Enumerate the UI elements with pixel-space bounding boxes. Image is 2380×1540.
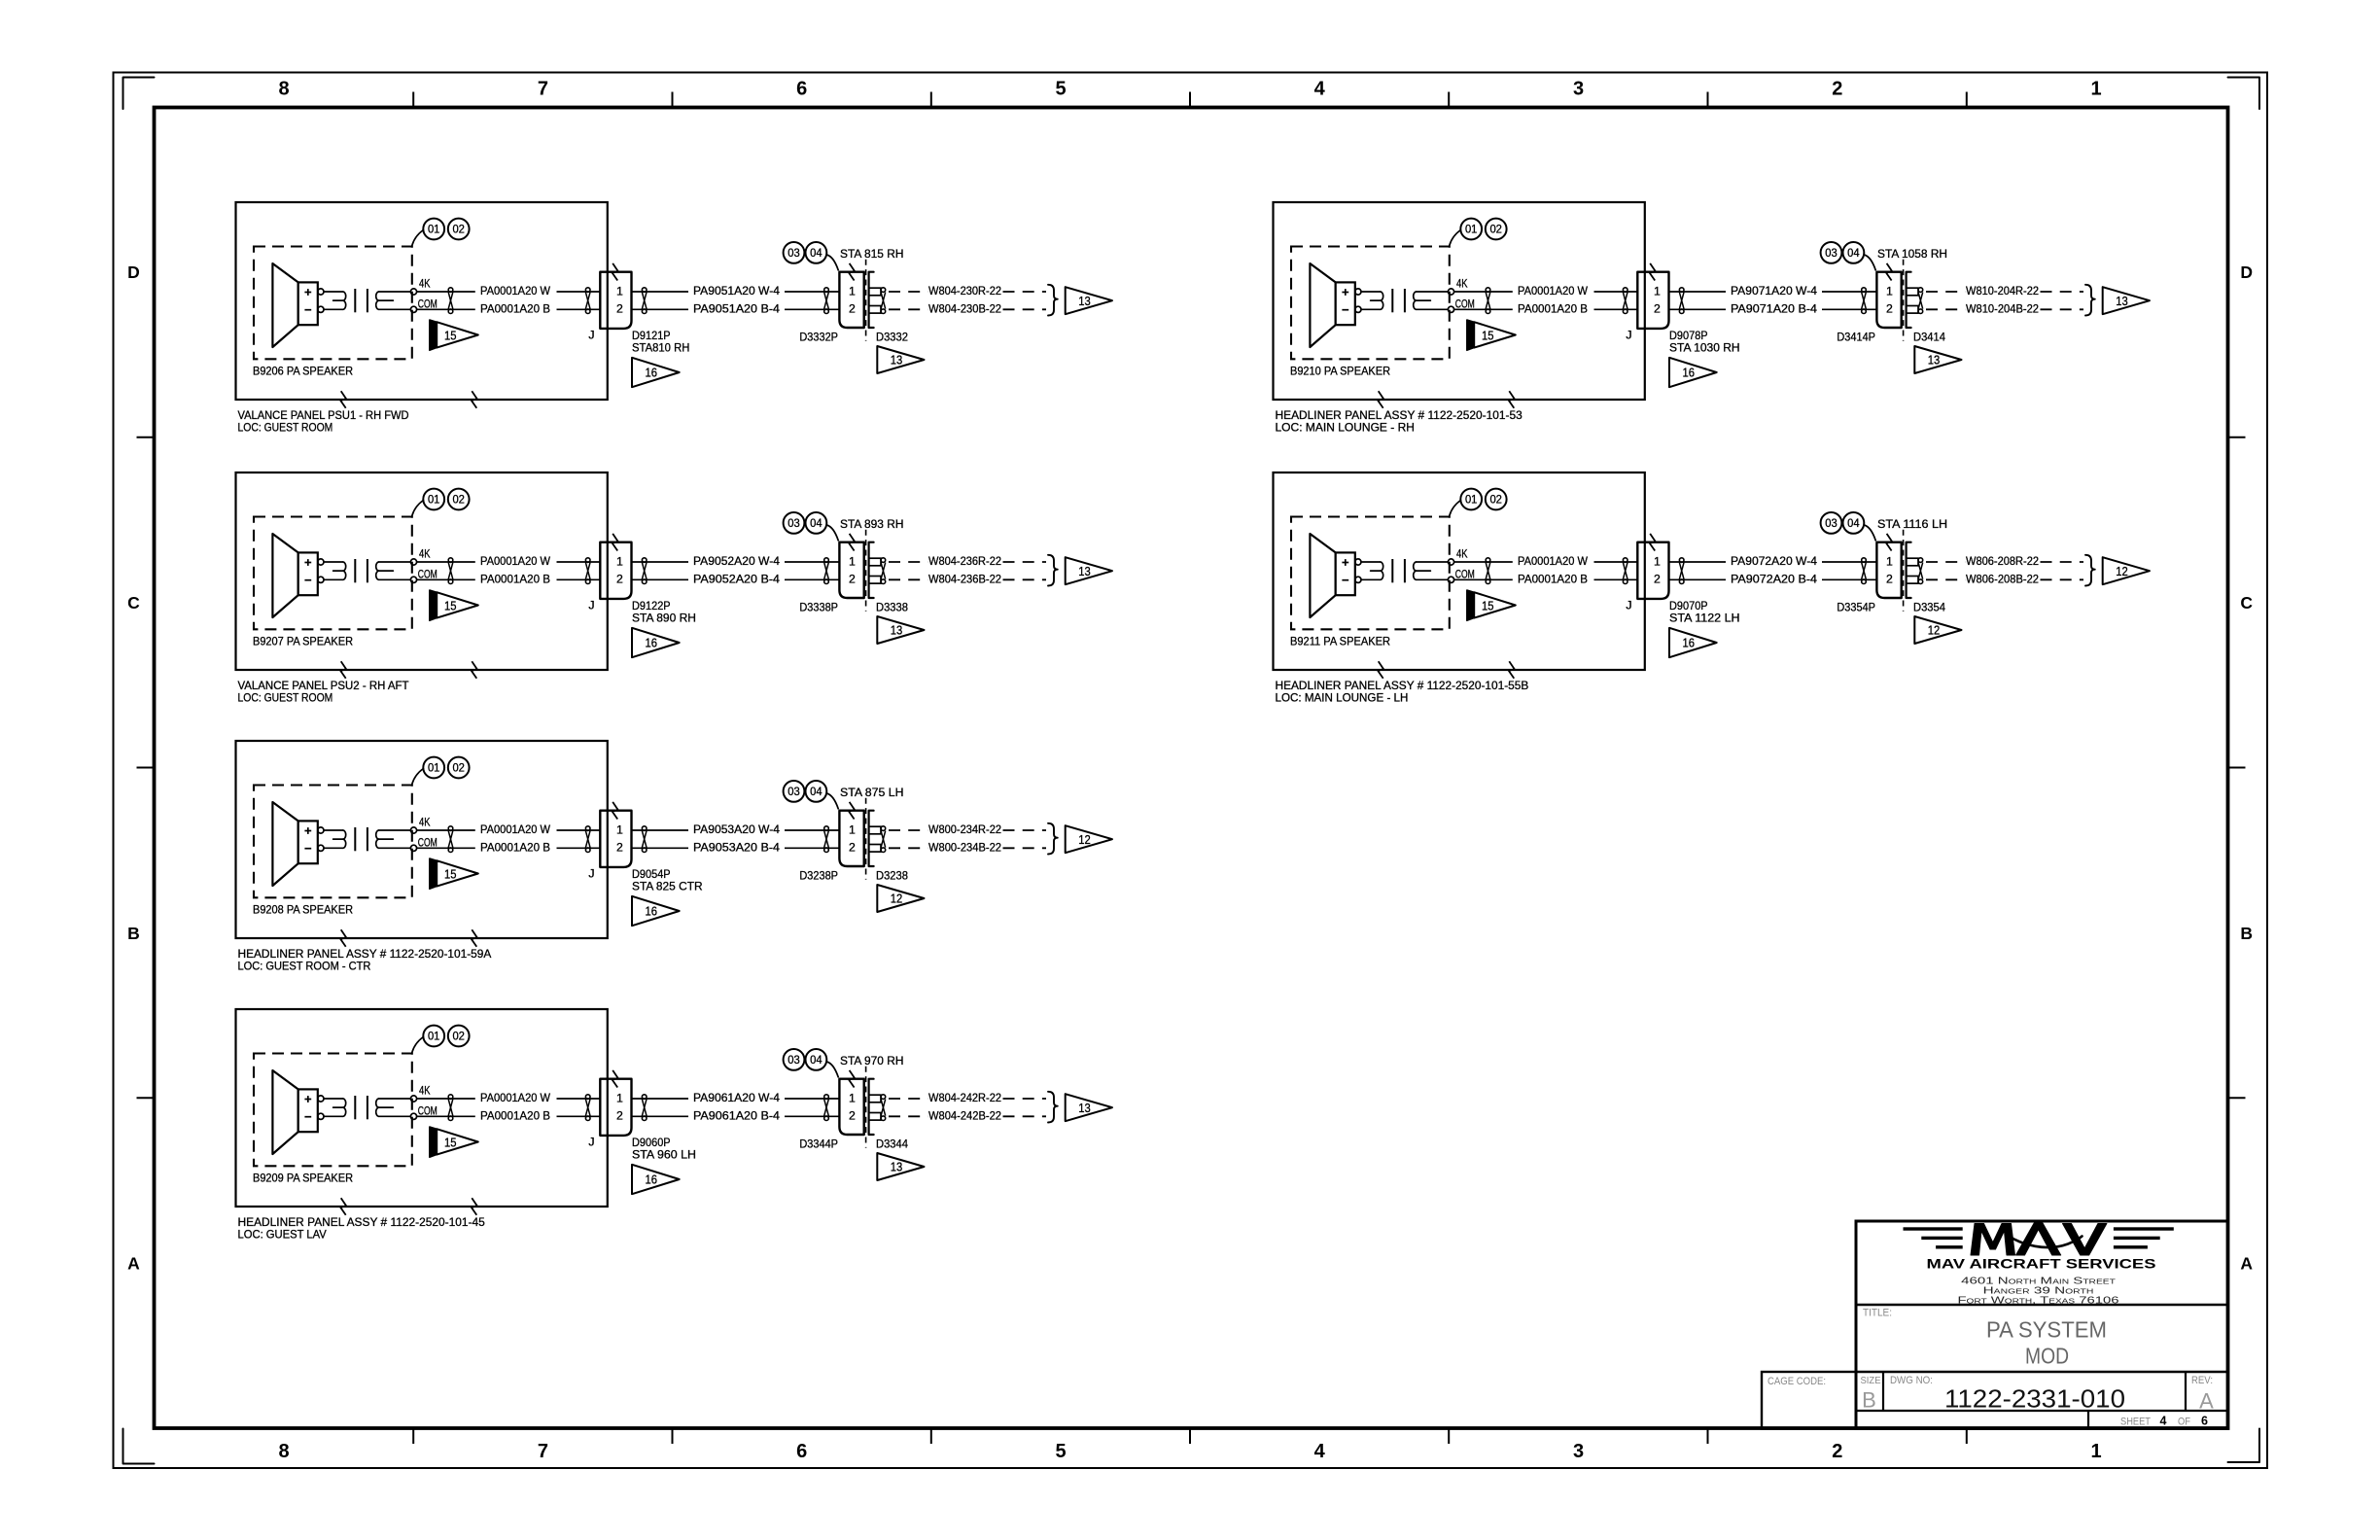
zone row ticks right — [2228, 437, 2246, 1099]
wire PA9053A20 W-4 (B9208) — [632, 822, 840, 836]
twist symbol 4 (B9206) — [824, 288, 829, 314]
terminal COM (B9209) — [410, 1104, 437, 1120]
panel box break mark 2 (B9206) — [472, 391, 477, 408]
svg-text:B9210 PA SPEAKER: B9210 PA SPEAKER — [1290, 365, 1390, 378]
caption HEADLINER PANEL ASSY # 1122-2520-101-53 — [1276, 408, 1522, 435]
connector D3238P pin 1 (B9208) — [849, 822, 856, 836]
svg-text:C: C — [2240, 593, 2253, 612]
svg-text:02: 02 — [452, 493, 465, 507]
flag 15 (B9207) — [430, 590, 478, 620]
svg-text:OF: OF — [2178, 1417, 2190, 1428]
svg-text:LOC: GUEST LAV: LOC: GUEST LAV — [238, 1228, 328, 1242]
flag 13 off-sheet (B9209) — [1066, 1094, 1112, 1121]
speaker B9207 + terminal mark — [304, 559, 311, 566]
svg-text:LOC: MAIN LOUNGE - RH: LOC: MAIN LOUNGE - RH — [1276, 421, 1415, 435]
connector J label (B9211) — [1626, 599, 1631, 612]
corner trim mark top-left — [123, 78, 155, 110]
rev A — [2199, 1389, 2214, 1414]
flag 12 off-sheet (B9208) — [1066, 825, 1112, 853]
svg-text:02: 02 — [452, 223, 465, 236]
speaker B9211 + terminal mark — [1342, 559, 1348, 566]
svg-text:2: 2 — [1832, 79, 1842, 100]
caption VALANCE PANEL PSU1 - RH FWD — [238, 408, 409, 435]
wire PA9061A20 B-4 (B9209) — [632, 1108, 840, 1122]
speaker B9207 symbol — [272, 534, 317, 617]
svg-text:PA0001A20 W: PA0001A20 W — [480, 1091, 550, 1104]
wire PA9051A20 B-4 (B9206) — [632, 301, 840, 315]
connector J label (B9206) — [588, 329, 594, 342]
svg-text:SHEET: SHEET — [2120, 1417, 2151, 1428]
corner trim mark top-right — [2228, 78, 2260, 110]
svg-text:STA 815 RH: STA 815 RH — [840, 247, 904, 261]
title PA SYSTEM — [1986, 1317, 2107, 1343]
flag 13 off-sheet (B9206) — [1066, 287, 1112, 314]
svg-text:D3238: D3238 — [876, 868, 908, 882]
svg-text:15: 15 — [1482, 598, 1494, 612]
twist symbol 1 (B9208) — [448, 826, 453, 853]
wire PA0001A20 W (B9207) — [417, 554, 601, 568]
svg-text:A: A — [2199, 1389, 2214, 1414]
svg-text:1: 1 — [616, 822, 623, 836]
wire PA9051A20 W-4 (B9206) — [632, 284, 840, 297]
svg-text:STA 1058 RH: STA 1058 RH — [1877, 247, 1947, 261]
connector J (B9210) — [1637, 272, 1668, 329]
flag 13 off-sheet (B9207) — [1066, 557, 1112, 584]
speaker B9208 label — [253, 903, 353, 917]
flag 15 (B9211) — [1467, 590, 1516, 620]
wire PA0001A20 W (B9206) — [417, 284, 601, 297]
wire service-loop curl left (B9207) — [324, 562, 346, 579]
svg-text:15: 15 — [444, 1135, 457, 1149]
svg-text:1: 1 — [849, 1091, 856, 1104]
flag 16 (B9209) — [632, 1165, 680, 1194]
svg-text:01: 01 — [428, 1030, 440, 1043]
connector J pin 1 (B9210) — [1654, 284, 1661, 297]
connector D3338P break mark (B9207) — [849, 534, 855, 551]
flag 16 (B9208) — [632, 896, 680, 926]
wire PA9053A20 B-4 (B9208) — [632, 840, 840, 854]
title MOD — [2025, 1344, 2069, 1369]
connector D3238P pin 2 (B9208) — [849, 841, 856, 855]
speaker B9211 terminal circles — [1355, 559, 1361, 583]
twist symbol 4 (B9209) — [824, 1095, 829, 1121]
wire PA0001A20 W (B9208) — [417, 822, 601, 836]
wire service-loop curl right (B9208) — [376, 830, 411, 848]
wire service-loop curl right (B9210) — [1414, 292, 1449, 309]
svg-text:STA 1122 LH: STA 1122 LH — [1669, 612, 1740, 625]
svg-text:4K: 4K — [419, 547, 431, 561]
station label STA 875 LH (B9208) — [840, 786, 904, 799]
connector D9078P labels (B9210) — [1669, 329, 1740, 355]
svg-text:PA9071A20 B-4: PA9071A20 B-4 — [1731, 301, 1817, 315]
speaker B9210 terminal circles — [1355, 289, 1361, 313]
address line 2 — [1983, 1285, 2094, 1296]
flag 15 (B9209) — [430, 1127, 478, 1157]
svg-text:12: 12 — [2116, 564, 2128, 578]
svg-text:13: 13 — [1078, 1101, 1091, 1115]
wire service-loop curl left (B9211) — [1361, 562, 1383, 579]
connector label D3344 (B9209) — [876, 1137, 908, 1150]
svg-text:PA9051A20 B-4: PA9051A20 B-4 — [693, 301, 780, 315]
flag 13 off-sheet (B9210) — [2103, 287, 2150, 314]
svg-text:4K: 4K — [419, 277, 431, 291]
svg-text:J: J — [588, 867, 594, 881]
twist symbol 3 (B9210) — [1679, 288, 1684, 314]
svg-text:1122-2331-010: 1122-2331-010 — [1944, 1384, 2125, 1414]
svg-text:2: 2 — [1654, 573, 1661, 586]
svg-text:D3344: D3344 — [876, 1137, 908, 1150]
speaker B9207 terminal circles — [318, 559, 324, 583]
svg-text:4: 4 — [1314, 1441, 1326, 1462]
terminal COM (B9208) — [410, 836, 437, 852]
svg-text:02: 02 — [1489, 223, 1502, 236]
connector D3332P pin 2 (B9206) — [849, 302, 856, 316]
caption VALANCE PANEL PSU2 - RH AFT — [238, 679, 409, 705]
svg-text:TITLE:: TITLE: — [1863, 1308, 1892, 1319]
connector D3344P pin 2 (B9209) — [849, 1109, 856, 1123]
flag 15 (B9210) — [1467, 320, 1516, 350]
connector J break mark (B9208) — [612, 802, 618, 820]
feed-through bars (B9206) — [355, 289, 367, 312]
svg-text:16: 16 — [1683, 366, 1696, 380]
svg-text:W804-236R-22: W804-236R-22 — [928, 554, 1001, 568]
connector J pin 2 (B9210) — [1654, 302, 1661, 316]
svg-text:PA9061A20 B-4: PA9061A20 B-4 — [693, 1108, 780, 1122]
svg-text:02: 02 — [452, 761, 465, 775]
connector J break mark (B9209) — [612, 1070, 618, 1088]
svg-text:6: 6 — [796, 79, 807, 100]
feed-through bars (B9211) — [1392, 559, 1405, 582]
svg-text:2: 2 — [849, 302, 856, 316]
station reference dashed line (B9209) — [865, 1067, 867, 1148]
svg-text:6: 6 — [796, 1441, 807, 1462]
svg-text:4K: 4K — [1456, 547, 1468, 561]
svg-text:W806-208B-22: W806-208B-22 — [1966, 572, 2039, 585]
svg-text:B9207 PA SPEAKER: B9207 PA SPEAKER — [253, 635, 353, 648]
wire service-loop curl right (B9207) — [376, 562, 411, 579]
station reference dashed line (B9207) — [865, 530, 867, 612]
wire PA0001A20 B (B9206) — [417, 301, 601, 315]
svg-text:4K: 4K — [419, 816, 431, 829]
station label STA 970 RH (B9209) — [840, 1054, 904, 1067]
svg-text:15: 15 — [1482, 328, 1494, 342]
svg-text:SIZE: SIZE — [1861, 1375, 1881, 1386]
panel box VALANCE PANEL PSU1 - RH FWD — [236, 202, 608, 400]
wire service-loop curl right (B9211) — [1414, 562, 1449, 579]
speaker B9211 label — [1290, 635, 1390, 648]
flag 13 below connector (B9210) — [1914, 346, 1961, 373]
size B — [1862, 1388, 1876, 1413]
svg-text:1: 1 — [849, 822, 856, 836]
svg-text:04: 04 — [810, 246, 822, 260]
svg-text:13: 13 — [1078, 294, 1091, 308]
REV label — [2191, 1375, 2213, 1386]
svg-text:W804-242B-22: W804-242B-22 — [928, 1108, 1001, 1122]
wire PA9061A20 W-4 (B9209) — [632, 1091, 840, 1104]
dashed wire W800-234R-22 (B9208) — [889, 822, 1046, 836]
panel box break mark 1 (B9206) — [340, 391, 346, 408]
connector label D3332P (B9206) — [799, 330, 838, 343]
svg-text:4K: 4K — [1456, 277, 1468, 291]
dashed wire W804-242R-22 (B9209) — [889, 1091, 1046, 1104]
panel box HEADLINER PANEL ASSY # 1122-2520-101-59A — [236, 741, 608, 938]
connector J break mark (B9206) — [612, 263, 618, 281]
connector D3354P pin 1 (B9211) — [1886, 554, 1893, 568]
svg-text:1: 1 — [1654, 284, 1661, 297]
dashed LRU boundary B9210 — [1291, 247, 1450, 360]
svg-text:PA9053A20 B-4: PA9053A20 B-4 — [693, 840, 780, 854]
flag 13 below connector (B9207) — [877, 616, 924, 644]
wire PA9052A20 W-4 (B9207) — [632, 554, 840, 568]
svg-text:PA9052A20 B-4: PA9052A20 B-4 — [693, 572, 780, 585]
brace (B9209) — [1048, 1092, 1058, 1123]
svg-text:2: 2 — [849, 573, 856, 586]
dashed wire W804-230B-22 (B9206) — [889, 301, 1046, 315]
speaker B9206 label — [253, 365, 353, 378]
station reference dashed line (B9208) — [865, 798, 867, 880]
speaker B9206 symbol — [272, 263, 317, 347]
svg-text:15: 15 — [444, 866, 457, 881]
connector D3354P body (B9211) — [1876, 542, 1901, 598]
ref circles 01 02 (B9210) — [1450, 219, 1507, 246]
wire PA0001A20 B (B9208) — [417, 840, 601, 854]
zone column ticks bottom — [413, 1428, 1967, 1444]
svg-text:B9208 PA SPEAKER: B9208 PA SPEAKER — [253, 903, 353, 917]
svg-text:12: 12 — [891, 892, 903, 906]
connector D3344P pin 1 (B9209) — [849, 1091, 856, 1104]
SIZE label — [1861, 1375, 1881, 1386]
svg-text:DWG NO:: DWG NO: — [1890, 1375, 1933, 1386]
connector J pin 1 (B9211) — [1654, 554, 1661, 568]
svg-text:4: 4 — [2160, 1415, 2167, 1428]
caption HEADLINER PANEL ASSY # 1122-2520-101-55B — [1276, 679, 1529, 705]
svg-text:D3332: D3332 — [876, 330, 908, 343]
twist symbol 5 (B9210) — [1918, 288, 1923, 314]
connector D3332P break mark (B9206) — [849, 263, 855, 281]
svg-text:15: 15 — [444, 598, 457, 612]
svg-text:4K: 4K — [419, 1084, 431, 1098]
svg-text:01: 01 — [428, 223, 440, 236]
wire PA9071A20 W-4 (B9210) — [1669, 284, 1877, 297]
svg-text:MAV AIRCRAFT SERVICES: MAV AIRCRAFT SERVICES — [1927, 1257, 2156, 1272]
svg-text:1: 1 — [1886, 284, 1893, 297]
DWG NO label — [1890, 1375, 1933, 1386]
svg-text:STA 1030 RH: STA 1030 RH — [1669, 341, 1740, 355]
speaker B9211 symbol — [1310, 534, 1354, 617]
svg-text:B: B — [127, 924, 140, 943]
svg-text:W804-230R-22: W804-230R-22 — [928, 284, 1001, 297]
address line 3 — [1958, 1296, 2119, 1307]
speaker B9209 - terminal mark — [304, 1116, 311, 1118]
twist symbol 3 (B9209) — [642, 1095, 647, 1121]
twist symbol 1 (B9206) — [448, 288, 453, 314]
ref circles 01 02 (B9206) — [412, 219, 470, 246]
svg-text:5: 5 — [1055, 1441, 1066, 1462]
wire PA0001A20 B (B9211) — [1454, 572, 1638, 585]
svg-text:W800-234B-22: W800-234B-22 — [928, 840, 1001, 854]
svg-text:16: 16 — [646, 904, 658, 919]
svg-text:STA 825 CTR: STA 825 CTR — [632, 880, 703, 893]
svg-text:Fort Worth, Texas 76106: Fort Worth, Texas 76106 — [1958, 1296, 2119, 1307]
dashed LRU boundary B9208 — [254, 786, 412, 898]
svg-text:04: 04 — [810, 785, 822, 798]
svg-text:PA0001A20 W: PA0001A20 W — [1518, 554, 1588, 568]
svg-text:W810-204B-22: W810-204B-22 — [1966, 301, 2039, 315]
connector J (B9209) — [600, 1079, 631, 1136]
svg-text:D3338: D3338 — [876, 600, 908, 613]
dashed wire W804-236B-22 (B9207) — [889, 572, 1046, 585]
svg-text:PA0001A20 W: PA0001A20 W — [1518, 284, 1588, 297]
corner trim mark bottom-right — [2228, 1429, 2260, 1463]
svg-text:D3354P: D3354P — [1837, 600, 1875, 613]
svg-text:J: J — [1626, 329, 1631, 342]
svg-text:2: 2 — [616, 573, 623, 586]
flag 12 below connector (B9211) — [1914, 616, 1961, 644]
svg-text:STA 875 LH: STA 875 LH — [840, 786, 904, 799]
svg-text:C: C — [127, 593, 140, 612]
connector D3332P body (B9206) — [839, 272, 863, 328]
caption HEADLINER PANEL ASSY # 1122-2520-101-45 — [238, 1215, 485, 1242]
connector D9054P labels (B9208) — [632, 867, 703, 893]
station label STA 1116 LH (B9211) — [1877, 517, 1947, 531]
panel box break mark 1 (B9209) — [340, 1198, 346, 1215]
svg-text:B: B — [2240, 924, 2253, 943]
svg-text:B9206 PA SPEAKER: B9206 PA SPEAKER — [253, 365, 353, 378]
svg-text:PA9053A20 W-4: PA9053A20 W-4 — [693, 822, 780, 836]
svg-text:CAGE CODE:: CAGE CODE: — [1767, 1376, 1826, 1387]
svg-text:PA0001A20 B: PA0001A20 B — [1518, 301, 1588, 315]
svg-text:STA 970 RH: STA 970 RH — [840, 1054, 904, 1067]
svg-text:2: 2 — [1886, 573, 1893, 586]
svg-text:PA0001A20 B: PA0001A20 B — [480, 301, 550, 315]
wire service-loop curl left (B9206) — [324, 292, 346, 309]
wire PA0001A20 W (B9210) — [1454, 284, 1638, 297]
MAV AIRCRAFT SERVICES — [1927, 1257, 2156, 1272]
svg-text:8: 8 — [279, 1441, 290, 1462]
svg-text:1: 1 — [1654, 554, 1661, 568]
svg-text:A: A — [127, 1254, 140, 1274]
svg-text:W810-204R-22: W810-204R-22 — [1966, 284, 2039, 297]
connector label D3238P (B9208) — [799, 868, 838, 882]
feed-through bars (B9210) — [1392, 289, 1405, 312]
panel box break mark 1 (B9210) — [1378, 391, 1383, 408]
twist symbol 4 (B9210) — [1862, 288, 1867, 314]
svg-text:D3344P: D3344P — [799, 1137, 838, 1150]
ref circles 03 04 (B9209) — [784, 1049, 839, 1077]
speaker B9206 + terminal mark — [304, 289, 311, 296]
svg-text:04: 04 — [1847, 246, 1860, 260]
ref circles 03 04 (B9210) — [1821, 242, 1876, 270]
svg-text:16: 16 — [1683, 636, 1696, 650]
connector J pin 2 (B9209) — [616, 1109, 623, 1123]
terminal 4K (B9210) — [1448, 277, 1468, 295]
brace (B9210) — [2085, 285, 2095, 316]
panel box break mark 1 (B9211) — [1378, 661, 1383, 679]
dashed wire W804-230R-22 (B9206) — [889, 284, 1046, 297]
svg-text:6: 6 — [2201, 1415, 2208, 1428]
terminal 4K (B9207) — [410, 547, 431, 565]
wire service-loop curl left (B9208) — [324, 830, 346, 848]
inner sheet border — [155, 108, 2228, 1429]
panel box HEADLINER PANEL ASSY # 1122-2520-101-53 — [1274, 202, 1645, 400]
speaker B9209 terminal circles — [318, 1096, 324, 1120]
connector label D3354 (B9211) — [1913, 600, 1945, 613]
speaker B9210 symbol — [1310, 263, 1354, 347]
connector J pin 1 (B9208) — [616, 822, 623, 836]
svg-text:2: 2 — [1886, 302, 1893, 316]
twist symbol 2 (B9211) — [1623, 558, 1627, 584]
svg-text:PA9051A20 W-4: PA9051A20 W-4 — [693, 284, 780, 297]
svg-text:03: 03 — [787, 785, 800, 798]
svg-text:PA SYSTEM: PA SYSTEM — [1986, 1317, 2107, 1343]
ref circles 01 02 (B9207) — [412, 489, 470, 516]
speaker B9210 label — [1290, 365, 1390, 378]
svg-text:13: 13 — [1078, 564, 1091, 578]
svg-text:04: 04 — [1847, 516, 1860, 530]
twist symbol 3 (B9206) — [642, 288, 647, 314]
svg-text:PA9072A20 B-4: PA9072A20 B-4 — [1731, 572, 1817, 585]
twist symbol 5 (B9207) — [881, 558, 886, 584]
flag 13 below connector (B9206) — [877, 346, 924, 373]
connector D3238 receptacle bracket (B9208) — [869, 811, 881, 866]
speaker B9206 - terminal mark — [304, 309, 311, 311]
svg-text:13: 13 — [891, 623, 903, 638]
svg-text:13: 13 — [891, 1160, 903, 1174]
svg-text:D3332P: D3332P — [799, 330, 838, 343]
speaker B9209 symbol — [272, 1070, 317, 1154]
svg-text:13: 13 — [2116, 294, 2128, 308]
wire PA9052A20 B-4 (B9207) — [632, 572, 840, 585]
connector D9121P labels (B9206) — [632, 329, 689, 355]
feed-through bars (B9207) — [355, 559, 367, 582]
terminal COM (B9206) — [410, 297, 437, 313]
svg-text:2: 2 — [616, 841, 623, 855]
zone row letters right — [2240, 262, 2253, 1273]
svg-text:D3414P: D3414P — [1837, 330, 1875, 343]
svg-text:J: J — [588, 1136, 594, 1149]
svg-text:13: 13 — [891, 353, 903, 367]
speaker B9208 symbol — [272, 802, 317, 886]
TITLE label — [1863, 1308, 1892, 1319]
dashed wire W806-208R-22 (B9211) — [1926, 554, 2083, 568]
svg-text:W800-234R-22: W800-234R-22 — [928, 822, 1001, 836]
speaker B9211 - terminal mark — [1342, 579, 1348, 581]
station reference dashed line (B9210) — [1903, 260, 1905, 341]
svg-text:LOC: GUEST ROOM: LOC: GUEST ROOM — [238, 691, 333, 705]
zone row letters left — [127, 262, 140, 1273]
wire PA9071A20 B-4 (B9210) — [1669, 301, 1877, 315]
twist symbol 1 (B9209) — [448, 1095, 453, 1121]
connector D3414P break mark (B9210) — [1886, 263, 1892, 281]
connector J label (B9209) — [588, 1136, 594, 1149]
flag 15 (B9208) — [430, 858, 478, 889]
svg-text:PA9071A20 W-4: PA9071A20 W-4 — [1731, 284, 1817, 297]
svg-text:W806-208R-22: W806-208R-22 — [1966, 554, 2039, 568]
brace (B9207) — [1048, 555, 1058, 586]
svg-text:PA0001A20 W: PA0001A20 W — [480, 284, 550, 297]
station reference dashed line (B9206) — [865, 260, 867, 341]
speaker B9209 + terminal mark — [304, 1096, 311, 1102]
connector D3332P pin 1 (B9206) — [849, 284, 856, 297]
svg-text:2: 2 — [1654, 302, 1661, 316]
brace (B9211) — [2085, 555, 2095, 586]
svg-text:04: 04 — [810, 1053, 822, 1067]
station reference dashed line (B9211) — [1903, 530, 1905, 612]
speaker B9206 terminal circles — [318, 289, 324, 313]
svg-text:03: 03 — [787, 516, 800, 530]
svg-text:REV:: REV: — [2191, 1375, 2213, 1386]
svg-text:02: 02 — [1489, 493, 1502, 507]
